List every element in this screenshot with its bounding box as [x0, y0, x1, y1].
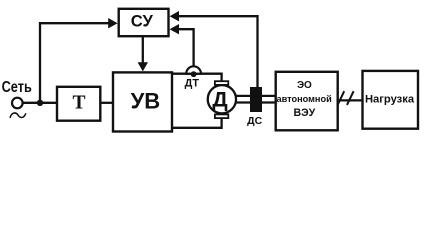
wire SU down to UV (stem)	[142, 36, 144, 63]
svg-text:ДТ: ДТ	[185, 77, 200, 89]
motor Д circle	[208, 85, 236, 113]
svg-text:автономной: автономной	[276, 94, 332, 104]
wire EO to load	[338, 99, 363, 101]
wire DS feedback: up and left into SU upper right	[178, 16, 258, 87]
svg-text:СУ: СУ	[131, 12, 154, 31]
speed sensor ДС black box	[250, 87, 262, 112]
wire UV right to motor top brush (armature top)	[172, 74, 222, 81]
shaft coupling lower line	[235, 101, 276, 103]
wire T to UV	[100, 102, 115, 104]
svg-text:Сеть: Сеть	[2, 79, 32, 96]
wire mains bus: source circle to T block	[23, 102, 58, 104]
svg-text:Д: Д	[212, 87, 227, 111]
source circle (Сеть)	[12, 98, 23, 109]
block Нагрузка (load)	[363, 71, 419, 129]
motor bottom brush	[215, 114, 228, 118]
block СУ (control unit)	[119, 9, 169, 36]
break slash 2	[347, 91, 354, 105]
arrowhead into SU right lower	[170, 24, 179, 34]
svg-text:УВ: УВ	[131, 89, 161, 114]
motor top brush	[215, 81, 228, 85]
current sensor ДТ dot	[191, 71, 197, 77]
svg-text:Нагрузка: Нагрузка	[365, 93, 415, 105]
arrowhead into SU left	[108, 18, 117, 28]
node junction dot at mains	[37, 100, 43, 106]
shaft coupling upper line	[235, 95, 276, 97]
wire UV right to motor bottom brush (armature return)	[172, 118, 222, 128]
block T (transformer)	[57, 87, 100, 121]
block УВ (rectifier)	[113, 72, 172, 131]
svg-text:ДС: ДС	[247, 115, 262, 127]
wire junction up to corner and right to SU	[40, 23, 109, 103]
block ЭО автономной ВЭУ	[276, 72, 338, 131]
break slash 1	[338, 91, 345, 105]
arrowhead into UV top	[138, 62, 148, 71]
AC tilde symbol	[10, 113, 26, 118]
svg-text:Т: Т	[72, 93, 85, 114]
wire DT feedback: up and left into SU lower right	[178, 29, 194, 67]
svg-text:ЭО: ЭО	[297, 80, 312, 91]
current sensor ДТ dome	[186, 66, 201, 73]
svg-text:ВЭУ: ВЭУ	[294, 107, 316, 119]
arrowhead into SU right upper	[170, 11, 179, 21]
